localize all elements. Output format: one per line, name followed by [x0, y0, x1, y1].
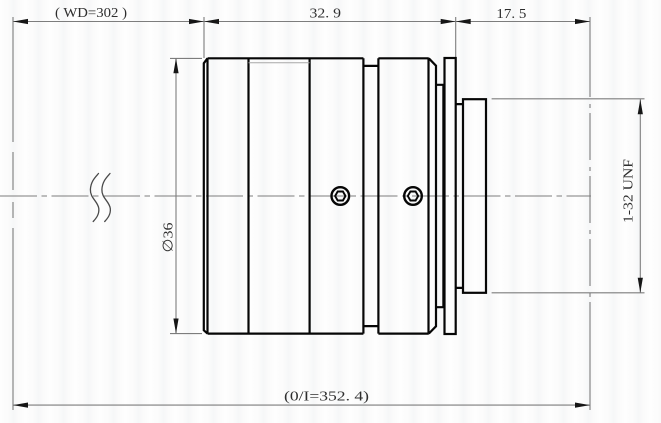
break squiggle: [90, 174, 110, 222]
dia36 extension bottom: [170, 333, 202, 335]
relief groove: [436, 85, 443, 307]
svg-text:17. 5: 17. 5: [496, 7, 526, 22]
extension line ring rear (x=455.7): [455, 17, 457, 58]
mount block: [463, 99, 486, 293]
lock ring: [445, 58, 456, 334]
divider 1: [247, 58, 249, 333]
groove rims: [363, 58, 378, 333]
O/I right arrow: [575, 403, 590, 408]
chamfered ring: [429, 58, 436, 333]
center line (horizontal axis): [0, 195, 591, 197]
groove floors: [363, 66, 378, 326]
UNF extension bottom: [492, 292, 645, 294]
front face with chamfers: [204, 58, 208, 333]
UNF extension top: [492, 98, 645, 100]
rear barrel edge: [427, 58, 429, 333]
UNF up arrow: [638, 99, 643, 114]
faint knurl line: [249, 62, 310, 64]
UNF dimension line: [639, 99, 641, 293]
top dimension line: [13, 21, 590, 23]
svg-text:32. 9: 32. 9: [310, 7, 342, 22]
divider 2: [309, 58, 311, 333]
set screw 1: [332, 187, 350, 205]
dia36 dimension line: [175, 58, 177, 333]
image plane line (right, x=590): [589, 17, 591, 410]
O/I left arrow: [13, 403, 28, 408]
bottom dimension line: [13, 404, 590, 406]
top edge: [208, 57, 429, 59]
bowtie at 204: [189, 19, 204, 24]
dia36 up arrow: [173, 58, 178, 73]
bottom edge: [208, 333, 429, 335]
UNF down arrow: [638, 278, 643, 293]
svg-text:1-32 UNF: 1-32 UNF: [622, 159, 637, 223]
undercut: [456, 104, 463, 288]
bowtie at 455.7: [441, 19, 456, 24]
svg-text:∅36: ∅36: [162, 223, 177, 253]
front inner vertical: [206, 58, 208, 333]
svg-text:( WD=302 ): ( WD=302 ): [55, 6, 127, 21]
svg-text:(0/I=352. 4): (0/I=352. 4): [284, 389, 369, 404]
dia36 down arrow: [173, 319, 178, 334]
extension line front face (x=204): [203, 17, 205, 58]
lens body: [204, 58, 486, 334]
dia36 extension top: [170, 57, 202, 59]
17.5 right arrow: [575, 19, 590, 24]
set screw 2: [404, 187, 422, 205]
object plane line (left, x=13): [12, 17, 14, 410]
WD left arrow: [13, 19, 28, 24]
